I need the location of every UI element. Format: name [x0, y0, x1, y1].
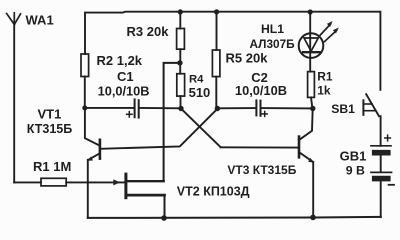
svg-text:VT2 КП103Д: VT2 КП103Д	[177, 184, 250, 198]
svg-text:9 В: 9 В	[346, 163, 365, 177]
resistor R4	[177, 63, 185, 109]
svg-text:R3 20k: R3 20k	[127, 24, 170, 39]
svg-text:GB1: GB1	[340, 149, 367, 164]
transistor VT3 base bar	[298, 137, 301, 158]
node on rail at HL1	[308, 9, 313, 14]
svg-text:VT1: VT1	[38, 106, 62, 121]
wire VT3 collector	[300, 109, 313, 140]
node VT2 drain / bottom rail	[161, 215, 167, 221]
svg-text:HL1: HL1	[261, 22, 284, 36]
svg-text:VT3 КТ315Б: VT3 КТ315Б	[227, 163, 296, 177]
resistor R1 (1k)	[308, 72, 315, 109]
wire top rail	[85, 12, 380, 90]
svg-text:1k: 1k	[317, 84, 331, 98]
resistor R1 1M	[14, 178, 66, 186]
resistor R5	[212, 12, 220, 108]
svg-text:C1: C1	[117, 69, 134, 84]
svg-text:АЛ307Б: АЛ307Б	[250, 37, 296, 51]
wire VT2 source	[127, 180, 163, 182]
node E: C2 / R1 / VT3 collector junction	[310, 106, 315, 111]
wire node A to C1	[85, 107, 134, 109]
svg-text:R1 1M: R1 1M	[33, 159, 71, 174]
wire cross-coupling C2 to VT1 base	[101, 109, 218, 149]
wire VT3 base	[221, 146, 298, 148]
wire node D to C2	[217, 107, 255, 109]
svg-text:КТ315Б: КТ315Б	[27, 122, 72, 136]
svg-text:R5 20k: R5 20k	[226, 50, 269, 65]
wire bottom rail	[88, 217, 381, 218]
LED HL1	[299, 12, 339, 72]
svg-text:10,0/10В: 10,0/10В	[98, 83, 150, 98]
svg-text:10,0/10В: 10,0/10В	[235, 83, 287, 98]
capacitor C1	[127, 99, 139, 117]
svg-text:WA1: WA1	[26, 12, 54, 27]
node D: R5 / C2 junction	[215, 106, 220, 111]
resistor R3	[177, 12, 185, 63]
svg-text:R1: R1	[317, 69, 333, 83]
wire C1 to node B	[140, 107, 181, 109]
wire VT2 drain	[127, 195, 164, 218]
node A: R2 / C1 / VT1 collector junction	[82, 105, 87, 110]
wire antenna mast down left side	[13, 24, 15, 183]
wire VT1 collector	[85, 108, 99, 145]
wire cross-coupling C1 to VT3 base	[181, 109, 221, 148]
switch SB1	[363, 94, 380, 146]
node VT3 emitter / bottom rail	[310, 215, 316, 221]
capacitor C2	[256, 100, 267, 116]
wire node C jog to VT2 source column	[164, 63, 180, 181]
antenna WA1	[7, 13, 21, 25]
wire R1 to VT2 gate with arrow	[66, 179, 124, 185]
node C: R3 / R4 / VT2 source junction	[177, 60, 182, 65]
transistor VT3 emitter with arrow	[300, 153, 315, 218]
svg-text:R4: R4	[189, 74, 204, 86]
svg-text:SB1: SB1	[331, 102, 355, 116]
transistor VT1 base bar	[99, 140, 102, 159]
battery GB1	[371, 135, 394, 217]
node on rail at R5	[214, 9, 219, 14]
transistor VT2 gate bar	[124, 174, 127, 198]
node B: C1 / R4 bottom junction	[178, 106, 183, 111]
wire C2 to node E	[261, 107, 312, 109]
transistor VT1 emitter with arrow	[87, 154, 99, 218]
svg-text:510: 510	[189, 85, 211, 100]
resistor R2	[81, 54, 89, 108]
svg-text:R2 1,2k: R2 1,2k	[97, 53, 143, 68]
node on rail at R3	[178, 9, 183, 14]
